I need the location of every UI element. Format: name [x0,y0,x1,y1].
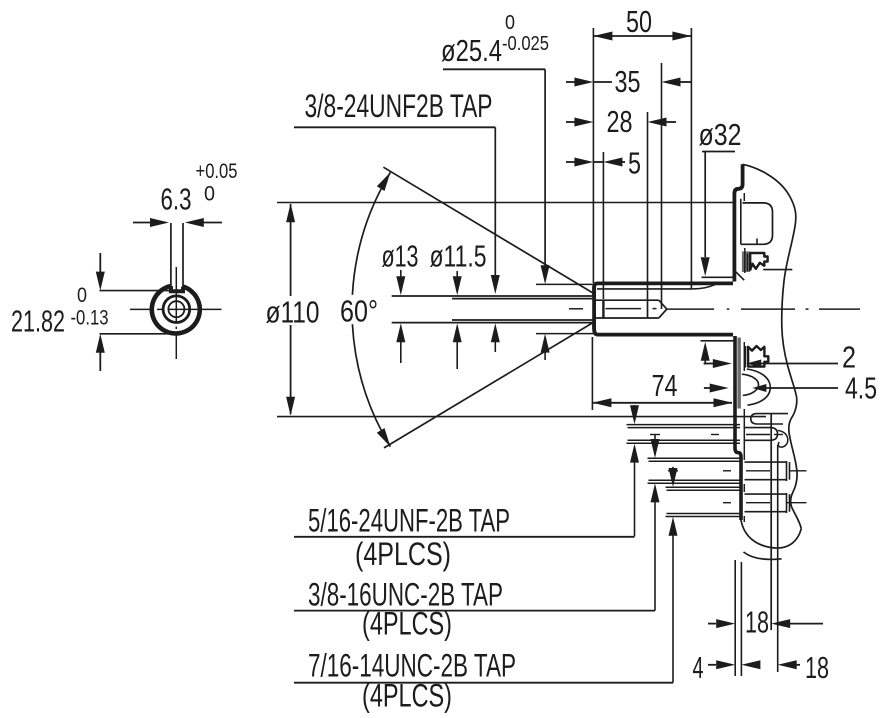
svg-text:18: 18 [745,605,769,640]
dimension 2 [704,359,838,368]
ext line 50 (x=691.4) [690,28,692,289]
svg-text:18: 18 [805,650,829,685]
rod outline phi13 [392,296,593,323]
dimension text phi110 [266,295,320,330]
dimension text 2 [842,340,856,375]
svg-text:ø25.4: ø25.4 [441,33,502,68]
dimension 4-18 lower [708,660,800,669]
dimension 18 upper [708,619,823,628]
rod thread lines phi11.5 [452,299,593,320]
pocket right of 5/16 boss [778,431,788,448]
dimension text 60deg [340,294,378,329]
end view horizontal centerline [130,308,222,310]
lower boss arcs [742,369,771,405]
crankcase outer contour (lower) [789,395,801,529]
dimension text 35 [615,64,641,99]
dimension text 4.5 [845,371,877,406]
angle arc 60deg [352,172,390,446]
crankcase face upper (thick) [734,164,742,281]
svg-text:3/8-24UNF2B TAP: 3/8-24UNF2B TAP [305,88,493,124]
dimension phi110 vertical line [286,203,295,415]
dimension phi11.5 leader [453,271,462,369]
label phi25.4 + tolerance [441,12,549,68]
dimension text phi11.5 [430,239,487,274]
svg-text:74: 74 [652,368,678,403]
svg-text:-0.025: -0.025 [502,33,549,55]
label underline+leader 3/8-24UNF2B [294,127,500,352]
keyway bottom line + runout [597,284,716,289]
dimension text 21.82 [11,304,65,339]
leader line 5/16 label [294,536,635,538]
svg-text:5/16-24UNF-2B TAP: 5/16-24UNF-2B TAP [308,503,510,539]
ext line 74 left (x=592.4) [591,337,593,410]
svg-text:0: 0 [77,284,87,307]
web finger above 5/16 boss [751,414,788,424]
dimension text phi13 [382,239,419,274]
phi32 underline + leader [701,152,735,277]
svg-text:5: 5 [628,146,641,181]
tolerance 0 over -0.13 [71,284,109,330]
svg-text:4.5: 4.5 [845,371,877,406]
hole centerline dashes 3/8 [668,470,807,472]
svg-text:50: 50 [626,4,652,39]
label (4PLCS) 2 [362,606,452,642]
dimension 5 [566,158,625,167]
svg-text:60°: 60° [340,294,378,329]
dimension text 4 [693,650,704,685]
svg-text:(4PLCS): (4PLCS) [362,606,452,642]
shaft end view outer circle with keyway slot [152,286,200,333]
dimension phi13 leader [396,270,405,363]
label (4PLCS) 3 [362,678,452,714]
boss face plane vertical [770,413,772,630]
svg-text:ø110: ø110 [266,295,320,330]
ext line top (phi110 / boss top) [277,202,734,204]
boss 3/8 (right side) [745,461,790,481]
phi25.4 underline + leader [443,69,550,284]
svg-text:(4PLCS): (4PLCS) [355,536,451,572]
shaft phi25.4 outline (thick) [594,283,733,334]
svg-text:0: 0 [204,183,215,206]
svg-text:35: 35 [615,64,641,99]
case bottom curves [741,520,801,559]
phi32 lower arrow [701,342,710,365]
label 3/8-24UNF2B TAP [305,88,493,124]
dimension text 18 upper [745,605,769,640]
dimension 35 [566,78,691,87]
leader 5/16 tap [630,405,639,537]
ext line 28 (x=647.5) [647,112,649,318]
phi25.4 extension lines at shaft end [536,284,594,360]
svg-text:2: 2 [842,340,856,375]
svg-text:ø13: ø13 [382,239,419,274]
main centerline (side view) [569,308,860,310]
svg-text:21.82: 21.82 [11,304,65,339]
label phi32 [699,117,742,152]
tapped hole 3/8 row lines [648,458,741,483]
dimension text 74 [652,368,678,403]
dimension 28 [566,118,676,127]
ext line bottom (phi110 / holes) [277,416,766,418]
seal-to-contour line upper [763,269,792,271]
boss 5/16 (right side) [745,428,778,441]
lower oil seal (section) [737,338,768,409]
tapped hole 3/8-24 in shaft end [594,300,667,318]
dimension 21.82 arrows [96,253,105,371]
svg-text:(4PLCS): (4PLCS) [362,678,452,714]
label 7/16-14UNC-2B TAP [308,648,516,684]
tapped hole 5/16 row lines [627,425,741,444]
dimension text 28 [607,104,633,139]
leader 7/16 tap [669,467,678,683]
hole centerline dashes 5/16 [650,434,783,436]
boss 7/16 (right side) [745,493,790,513]
keyway depth line (21.82 top) [100,290,171,292]
dimension 74 [592,398,732,407]
end view innermost circle [168,301,184,317]
face parallel thin lines [743,193,746,522]
svg-text:ø11.5: ø11.5 [430,239,487,274]
svg-text:6.3: 6.3 [161,182,192,217]
dimension 50 [593,32,691,41]
end view inner circle (bore) [163,296,190,323]
angle arc arrowheads [377,172,391,446]
dimension text 5 [628,146,641,181]
label (4PLCS) 1 [355,536,451,572]
phi32 collar lines [701,277,734,341]
svg-text:-0.13: -0.13 [71,307,109,330]
svg-text:4: 4 [693,650,704,685]
leader 3/8 tap [651,435,660,611]
crankcase outer contour (top) [743,164,797,395]
dimension text 50 [626,4,652,39]
hole centerline dashes 7/16 [723,502,807,504]
cone line lower [384,322,594,448]
keyway slot walls [171,223,183,290]
crankcase face mid-lower (thick) [735,336,741,520]
upper boss inner vertical [740,199,742,245]
tolerance +0.05 over 0 [196,160,238,206]
leader line 7/16 label [294,682,673,684]
label 5/16-24UNF-2B TAP [308,503,510,539]
dimension 6.3 arrows [133,218,222,227]
svg-text:ø32: ø32 [699,117,742,152]
shaft bottom tangent line (21.82 bottom) [100,333,171,335]
svg-text:28: 28 [607,104,633,139]
tapped hole 7/16 row lines [666,487,741,516]
ext line 5 (x=603.4) [602,152,604,299]
svg-text:0: 0 [505,12,515,34]
ext lines bottom dims [735,560,741,676]
leader line 3/8 label [294,610,655,612]
cone line upper [383,167,594,293]
ext line shaft end face (x=593.4) [592,28,594,283]
dimension text 18 lower [805,650,829,685]
upper bearing boss (rounded) [741,203,773,244]
end view vertical centerline [175,267,177,359]
dimension 4.5 [704,384,838,393]
boss cap ext vertical [777,445,779,672]
label 3/8-16UNC-2B TAP [308,577,503,613]
svg-text:+0.05: +0.05 [196,160,238,183]
dimension text 6.3 [161,182,192,217]
ext line 35 (x=661.5) [661,63,663,309]
upper oil seal (section) [736,251,768,280]
